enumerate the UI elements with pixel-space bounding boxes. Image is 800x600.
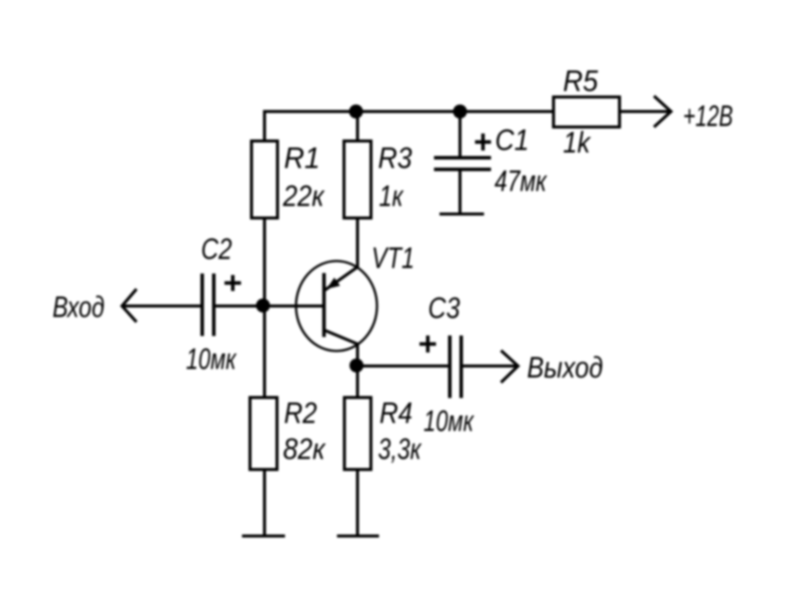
svg-text:R2: R2: [284, 397, 317, 430]
svg-text:1k: 1k: [563, 127, 592, 160]
svg-text:R1: R1: [284, 142, 320, 175]
svg-text:R4: R4: [380, 397, 413, 430]
svg-text:10мк: 10мк: [424, 405, 475, 438]
svg-text:1к: 1к: [379, 180, 404, 213]
svg-text:C1: C1: [495, 124, 529, 157]
svg-text:C3: C3: [428, 292, 460, 325]
svg-text:Выход: Выход: [527, 352, 603, 385]
svg-text:R5: R5: [563, 65, 598, 98]
svg-text:3,3к: 3,3к: [378, 433, 422, 466]
svg-text:Вход: Вход: [53, 291, 105, 324]
svg-text:VT1: VT1: [372, 242, 415, 275]
svg-text:R3: R3: [378, 142, 412, 175]
svg-text:47мк: 47мк: [495, 165, 548, 198]
svg-text:82к: 82к: [283, 433, 327, 466]
svg-text:+12В: +12В: [683, 100, 733, 133]
svg-text:C2: C2: [201, 233, 232, 266]
svg-text:22к: 22к: [282, 180, 325, 213]
svg-text:10мк: 10мк: [186, 343, 237, 376]
